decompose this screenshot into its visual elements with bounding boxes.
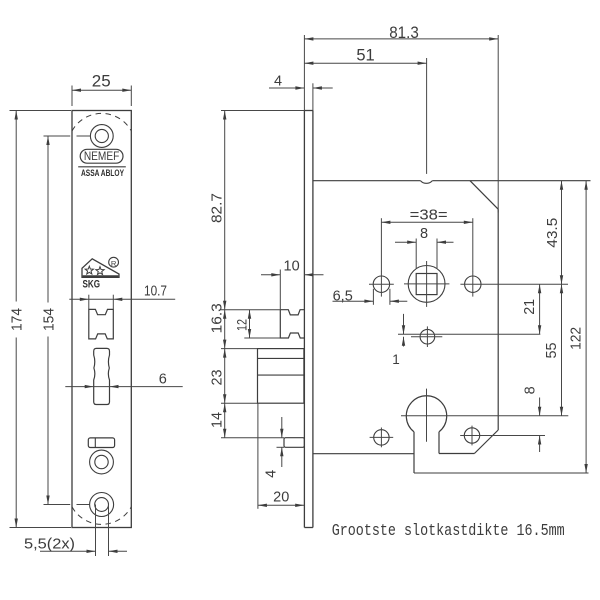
follower crosshair horizontal xyxy=(404,283,449,285)
svg-text:14: 14 xyxy=(210,412,226,428)
dim 4 top line xyxy=(269,87,304,89)
deadbolt inner line 1 xyxy=(258,357,304,359)
svg-text:4: 4 xyxy=(263,470,279,478)
right fixing hole crosshair xyxy=(472,272,474,297)
bottom left hole crosshair xyxy=(380,428,382,448)
deadbolt inner line 2 xyxy=(258,374,304,376)
svg-text:SKG: SKG xyxy=(83,278,101,290)
dim 8 line xyxy=(395,241,416,243)
svg-text:51: 51 xyxy=(356,47,374,65)
dim 38 ext left xyxy=(380,218,382,272)
dim 82.7 line xyxy=(224,111,226,310)
svg-text:10: 10 xyxy=(284,258,300,274)
faceplate side view left edge xyxy=(303,111,305,528)
SKG house thick base xyxy=(83,275,119,277)
cylinder screw hole inner xyxy=(95,455,108,468)
follower hole circle xyxy=(408,266,445,303)
dim 81.3 line xyxy=(304,38,498,40)
dim 8 ext left xyxy=(415,239,417,270)
svg-text:154: 154 xyxy=(41,308,57,331)
svg-text:16.3: 16.3 xyxy=(210,303,226,333)
NEMEF oval logo xyxy=(80,149,123,163)
dim 122 line xyxy=(585,181,587,473)
dim 174 line xyxy=(15,111,17,302)
dim 5.5 ext left xyxy=(95,505,97,557)
cylinder center line horizontal xyxy=(401,415,568,417)
left fixing hole xyxy=(373,276,389,292)
dim 25 extension right xyxy=(130,86,132,107)
bottom screw hole outer xyxy=(90,493,114,517)
ext faceplate left top xyxy=(303,35,305,111)
dim 23 line xyxy=(224,349,226,404)
right fixing hole xyxy=(465,276,481,292)
svg-text:R: R xyxy=(111,259,117,268)
dim 5.5 line xyxy=(40,550,96,552)
case top edge xyxy=(313,180,421,182)
ext line top edge left xyxy=(10,110,72,112)
deadbolt cutout (front view) xyxy=(94,348,110,404)
case top edge notch xyxy=(421,181,433,184)
SKG house symbol xyxy=(82,259,119,278)
svg-text:NEMEF: NEMEF xyxy=(84,150,120,163)
svg-text:5,5(2x): 5,5(2x) xyxy=(24,537,75,553)
dim 10.7 ext left xyxy=(88,295,90,309)
svg-text:=38=: =38= xyxy=(410,207,448,223)
dim 154 line xyxy=(47,136,49,303)
bottom right hole crosshair xyxy=(471,426,473,446)
svg-text:12: 12 xyxy=(234,319,250,331)
follower crosshair vertical xyxy=(426,261,428,307)
faceplate side view right edge xyxy=(312,111,314,528)
dim 1 arrows xyxy=(403,314,405,334)
latch bottom ext line xyxy=(244,337,280,339)
svg-text:ASSA ABLOY: ASSA ABLOY xyxy=(81,168,124,178)
cylinder screw slot (front view) xyxy=(88,438,114,448)
case top right diagonal xyxy=(470,181,498,210)
feature line above small hole xyxy=(398,333,540,335)
dim 10 ext line xyxy=(279,270,281,310)
ext faceplate right top xyxy=(312,83,314,110)
dim 51 line xyxy=(304,62,426,64)
latch top ext line xyxy=(221,309,280,311)
dim 10.7 line xyxy=(69,298,175,300)
svg-text:4: 4 xyxy=(274,74,282,90)
dim 16.3 line xyxy=(224,310,226,349)
dim 6.5 ext right xyxy=(389,289,391,305)
case bottom edge left part xyxy=(313,453,414,455)
case bottom edge xyxy=(414,472,589,474)
line under NEMEF oval xyxy=(78,166,126,168)
registered trademark circle xyxy=(109,257,119,267)
SKG star 1 xyxy=(85,266,93,274)
faceplate outline (front view) xyxy=(72,111,131,528)
cylinder keyhole xyxy=(406,396,446,432)
dim 4 bottom arrows xyxy=(281,417,283,438)
dim 25 line xyxy=(72,89,131,91)
dim 55 line xyxy=(561,284,563,416)
dim 14 line xyxy=(224,403,226,438)
svg-text:6,5: 6,5 xyxy=(333,288,353,304)
dim 5.5 ext right xyxy=(108,505,110,557)
faceplate side view top edge xyxy=(304,110,313,112)
left fixing hole crosshair xyxy=(380,272,382,297)
deadbolt side view box xyxy=(258,349,304,404)
svg-text:174: 174 xyxy=(10,308,26,331)
svg-text:82.7: 82.7 xyxy=(210,193,226,223)
dim 38 line xyxy=(381,221,472,223)
dim 10 line xyxy=(261,274,280,276)
svg-text:20: 20 xyxy=(273,490,289,506)
dashed arc bottom of faceplate xyxy=(72,507,131,525)
dim 6.5 line xyxy=(333,300,374,302)
svg-text:122: 122 xyxy=(568,327,584,350)
SKG star 2 xyxy=(96,267,104,275)
dashed arc top of faceplate xyxy=(72,113,131,131)
bottom left hole xyxy=(374,430,389,445)
latch bolt side view xyxy=(280,310,304,338)
top screw hole inner xyxy=(95,129,108,142)
dim 8 right arrows xyxy=(539,398,541,416)
ext case right top xyxy=(497,35,499,213)
dim 43.5 line xyxy=(561,181,563,285)
svg-text:81.3: 81.3 xyxy=(389,23,419,42)
svg-text:10.7: 10.7 xyxy=(144,284,167,300)
ext notch center xyxy=(426,58,428,174)
case inner bottom edge xyxy=(439,453,474,455)
small hole crosshair xyxy=(426,326,428,347)
case right edge xyxy=(497,209,499,430)
svg-text:8: 8 xyxy=(522,386,538,394)
svg-text:23: 23 xyxy=(210,370,226,386)
dim 20 line xyxy=(258,504,304,506)
cylinder crosshair vertical xyxy=(426,389,428,442)
dim 10.7 ext right xyxy=(112,295,114,309)
small center hole xyxy=(420,329,435,344)
case bottom right diagonal xyxy=(474,430,498,454)
dim 21 line xyxy=(539,284,541,334)
dim 25 extension left xyxy=(71,86,73,107)
svg-text:25: 25 xyxy=(92,72,111,91)
svg-text:55: 55 xyxy=(544,343,560,359)
bottom screw hole inner xyxy=(95,498,109,512)
svg-text:8: 8 xyxy=(420,226,428,242)
follower square hole xyxy=(416,274,437,295)
dim 8 ext right xyxy=(436,239,438,270)
latch cutout (front view) xyxy=(89,309,114,339)
ext line deadbolt top xyxy=(221,348,258,350)
slot divider line xyxy=(94,438,96,448)
screw tab side view xyxy=(284,438,304,448)
faceplate side view bottom edge xyxy=(304,527,313,529)
dim 12 line xyxy=(249,310,251,338)
ext line tab bottom xyxy=(277,446,285,448)
svg-text:6: 6 xyxy=(159,371,167,387)
bottom right hole xyxy=(464,428,479,443)
ext line deadbolt bottom xyxy=(221,402,258,404)
ext line top hole center xyxy=(44,135,71,137)
cylinder screw hole outer xyxy=(90,450,114,474)
dim 20 ext line xyxy=(257,403,259,509)
ext line case top left xyxy=(221,110,304,112)
ext line tab top xyxy=(221,437,284,439)
svg-text:21: 21 xyxy=(522,299,538,315)
svg-text:43.5: 43.5 xyxy=(545,218,561,248)
dim 38 ext right xyxy=(472,218,474,272)
svg-text:Grootste slotkastdikte 16.5mm: Grootste slotkastdikte 16.5mm xyxy=(332,521,565,540)
svg-text:1: 1 xyxy=(392,352,400,367)
dim 6 line xyxy=(65,386,182,388)
ext line bottom hole center xyxy=(44,504,71,506)
ext line bottom edge left xyxy=(10,527,72,529)
top screw hole outer xyxy=(90,125,113,148)
dim 6.5 ext left xyxy=(372,289,374,305)
